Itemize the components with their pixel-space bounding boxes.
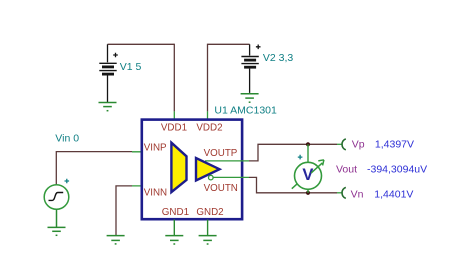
ground below Vin: [48, 227, 66, 235]
svg-text:VOUTN: VOUTN: [204, 183, 238, 194]
pin GND2 wire to ground: [207, 220, 209, 236]
source Vin (voltage generator): [44, 179, 69, 227]
inverting bubble: [209, 175, 214, 180]
pin VOUTN line: [213, 176, 249, 178]
pin VDD2 stub: [207, 111, 209, 120]
svg-text:GND1: GND1: [162, 207, 189, 218]
svg-text:Vin 0: Vin 0: [55, 133, 79, 145]
wire VOUTN to Vn terminal: [249, 177, 337, 192]
wire VDD2 drop: [207, 44, 209, 112]
voltmeter Vout: [292, 155, 324, 190]
svg-text:Vn: Vn: [351, 188, 364, 200]
svg-text:1,4397V: 1,4397V: [375, 138, 414, 150]
svg-text:VDD1: VDD1: [161, 123, 187, 134]
wire Vin to VINP: [56, 152, 132, 185]
ground below V1: [99, 103, 117, 111]
ground below V2: [241, 94, 259, 103]
junction node Vn: [306, 191, 310, 195]
pin VINN: [132, 185, 171, 187]
ground GND1: [165, 236, 183, 244]
wire V1 to VDD1 top rail: [108, 43, 175, 45]
pin VINP: [132, 151, 171, 153]
wire VDD1 drop: [173, 44, 175, 112]
modulator trapezoid: [171, 143, 186, 192]
pin VDD1 stub: [173, 111, 175, 120]
svg-text:-394,3094uV: -394,3094uV: [367, 163, 427, 175]
junction node Vp: [306, 142, 310, 146]
terminal Vn: [337, 192, 342, 194]
voltmeter stub bottom: [307, 189, 309, 193]
svg-text:VDD2: VDD2: [196, 123, 222, 134]
ground GND2: [199, 236, 217, 244]
svg-text:U1 AMC1301: U1 AMC1301: [214, 104, 277, 116]
svg-text:VINP: VINP: [144, 142, 167, 153]
svg-text:Vout: Vout: [336, 163, 357, 175]
svg-text:GND2: GND2: [196, 207, 223, 218]
svg-text:V1 5: V1 5: [120, 61, 142, 73]
svg-text:1,4401V: 1,4401V: [374, 188, 413, 200]
pin VOUTP line: [205, 160, 249, 162]
svg-text:VINN: VINN: [144, 188, 167, 199]
filter triangle: [196, 158, 220, 181]
svg-text:Vp: Vp: [352, 138, 365, 150]
pin GND1 wire to ground: [173, 220, 175, 236]
wire VOUTP to Vp terminal: [249, 144, 337, 161]
svg-text:V2 3,3: V2 3,3: [263, 52, 294, 64]
wire VINN to ground: [116, 186, 132, 235]
ground below VINN wire: [107, 236, 125, 244]
terminal Vp: [337, 143, 342, 145]
voltmeter stub top: [307, 144, 309, 162]
svg-text:V: V: [302, 166, 313, 184]
battery V1: [99, 44, 117, 102]
wire VDD2 top rail to V2: [208, 43, 250, 45]
battery V2: [241, 44, 260, 93]
op-amp box U1 AMC1301: [142, 120, 242, 220]
svg-text:VOUTP: VOUTP: [204, 148, 238, 159]
